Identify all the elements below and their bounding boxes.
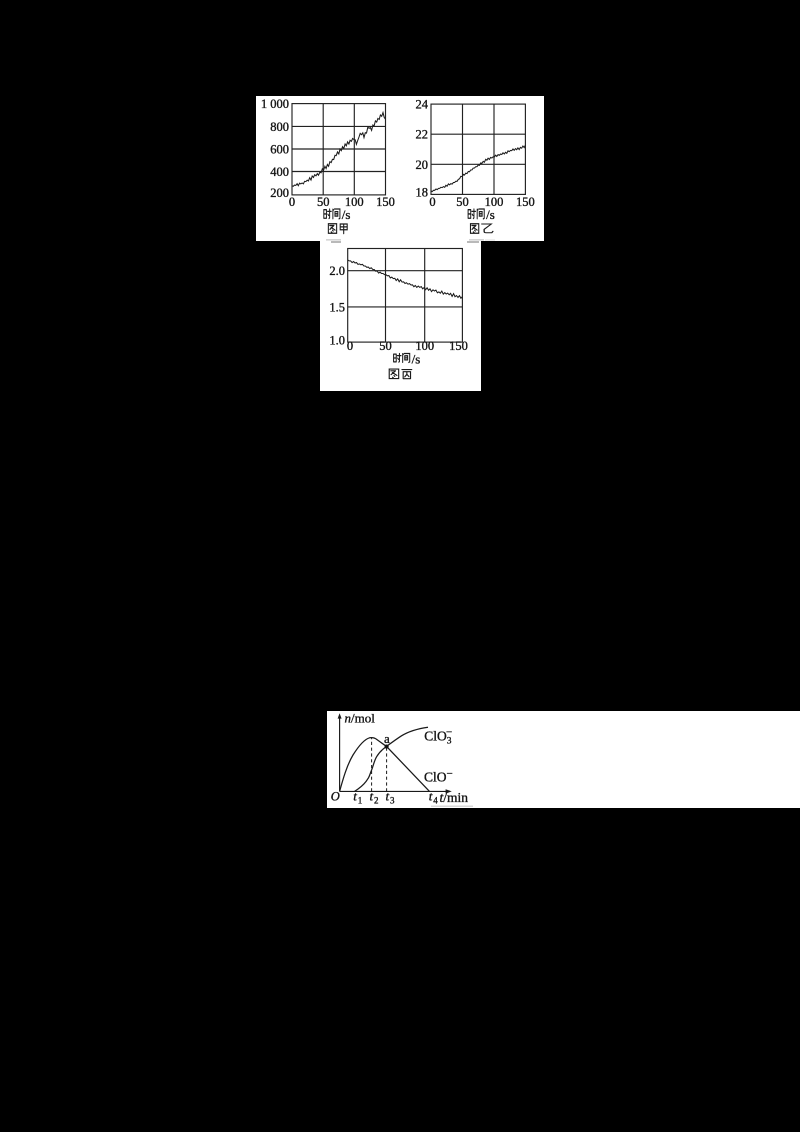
svg-text:600: 600 (270, 142, 289, 156)
svg-text:t: t (370, 789, 374, 804)
svg-text:O: O (331, 789, 340, 803)
svg-text:22: 22 (416, 127, 429, 141)
svg-text:1.5: 1.5 (329, 300, 345, 314)
svg-text:20: 20 (416, 157, 429, 171)
svg-text:/s: /s (411, 351, 420, 366)
svg-text:24: 24 (416, 97, 429, 111)
svg-text:ClO−: ClO− (424, 768, 453, 785)
svg-text:1.0: 1.0 (329, 333, 345, 347)
svg-text:50: 50 (456, 194, 469, 208)
svg-text:/s: /s (486, 206, 495, 221)
svg-text:50: 50 (379, 339, 392, 353)
svg-text:3: 3 (390, 796, 395, 806)
svg-text:150: 150 (516, 194, 535, 208)
svg-text:150: 150 (376, 194, 395, 208)
svg-text:ClO3−: ClO3− (424, 727, 452, 747)
svg-text:400: 400 (270, 165, 289, 179)
svg-text:/s: /s (342, 206, 351, 221)
svg-text:t: t (353, 789, 357, 804)
svg-text:0: 0 (429, 194, 435, 208)
svg-text:1: 1 (358, 796, 363, 806)
svg-text:a: a (384, 731, 390, 746)
svg-text:n/mol: n/mol (345, 711, 376, 726)
svg-text:200: 200 (270, 186, 289, 200)
svg-text:2.0: 2.0 (329, 264, 345, 278)
svg-text:18: 18 (416, 185, 429, 199)
svg-text:t: t (386, 789, 390, 804)
svg-text:4: 4 (433, 796, 438, 806)
svg-text:0: 0 (346, 339, 352, 353)
svg-text:0: 0 (289, 194, 295, 208)
svg-text:t: t (429, 789, 433, 804)
svg-text:800: 800 (270, 119, 289, 133)
svg-text:50: 50 (317, 194, 330, 208)
svg-text:1 000: 1 000 (261, 97, 289, 111)
svg-text:150: 150 (449, 339, 468, 353)
svg-text:t/min: t/min (440, 790, 469, 805)
svg-text:2: 2 (374, 796, 379, 806)
